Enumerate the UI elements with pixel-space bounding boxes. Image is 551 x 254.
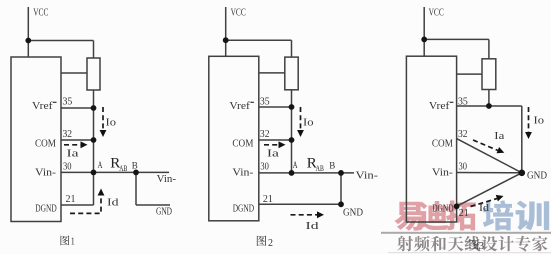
svg-text:30: 30 <box>459 162 468 173</box>
svg-text:VCC: VCC <box>231 7 246 19</box>
svg-text:21: 21 <box>263 194 273 205</box>
svg-text:GND: GND <box>527 171 547 182</box>
svg-text:30: 30 <box>63 162 72 173</box>
svg-text:Vin-: Vin- <box>35 167 56 179</box>
svg-text:Ia: Ia <box>267 148 279 160</box>
svg-text:Id: Id <box>107 196 119 208</box>
svg-text:Vin-: Vin- <box>157 174 177 185</box>
svg-text:GND: GND <box>156 207 172 218</box>
svg-text:DGND: DGND <box>35 203 57 214</box>
svg-text:Vref: Vref <box>229 100 250 112</box>
svg-text:DGND: DGND <box>432 203 454 214</box>
svg-text:DGND: DGND <box>233 203 255 214</box>
svg-text:Vref: Vref <box>429 100 450 112</box>
svg-text:Io: Io <box>106 117 117 129</box>
svg-text:Io: Io <box>534 115 545 127</box>
svg-text:COM: COM <box>232 138 253 150</box>
svg-text:B: B <box>132 162 138 172</box>
svg-text:VCC: VCC <box>33 7 48 19</box>
svg-text:32: 32 <box>63 129 73 140</box>
svg-text:3: 3 <box>479 241 484 252</box>
svg-text:35: 35 <box>458 97 468 108</box>
svg-text:AB: AB <box>119 164 127 173</box>
svg-text:Id: Id <box>479 202 490 214</box>
svg-text:VCC: VCC <box>429 7 444 19</box>
svg-text:A: A <box>293 161 298 171</box>
svg-text:GND: GND <box>343 208 363 219</box>
svg-text:35: 35 <box>260 97 270 108</box>
svg-text:AB: AB <box>316 164 324 173</box>
svg-text:Ia: Ia <box>494 130 504 142</box>
svg-text:B: B <box>329 162 335 172</box>
svg-text:1: 1 <box>71 235 75 247</box>
svg-text:21: 21 <box>459 208 469 219</box>
svg-text:Vin-: Vin- <box>232 167 253 179</box>
svg-text:Io: Io <box>303 117 314 129</box>
svg-text:Id: Id <box>306 220 320 232</box>
svg-text:Vref: Vref <box>32 100 53 112</box>
svg-text:COM: COM <box>432 138 453 150</box>
svg-text:2: 2 <box>268 238 273 249</box>
svg-text:32: 32 <box>260 129 270 140</box>
svg-text:21: 21 <box>66 194 76 205</box>
svg-text:Vin-: Vin- <box>356 171 379 182</box>
svg-text:32: 32 <box>458 129 468 140</box>
svg-text:Vin-: Vin- <box>432 167 453 179</box>
svg-text:A: A <box>98 161 103 171</box>
svg-text:COM: COM <box>35 138 56 150</box>
svg-text:30: 30 <box>260 162 269 173</box>
svg-text:Ia: Ia <box>67 148 79 160</box>
svg-text:35: 35 <box>63 97 73 108</box>
